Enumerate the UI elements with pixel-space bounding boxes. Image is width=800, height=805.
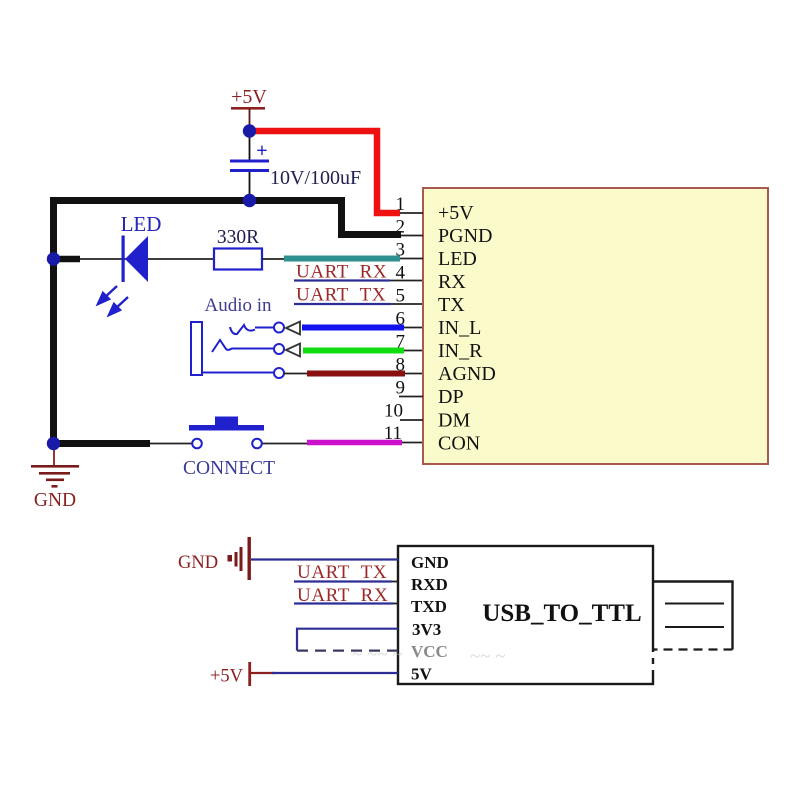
wire CON (magenta, pin 11) (307, 440, 402, 446)
svg-text:4: 4 (396, 263, 406, 284)
net label UART_RX with wire (to TXD) (294, 585, 398, 606)
junction node LED branch (47, 252, 60, 265)
svg-text:~~ ~: ~~ ~ (470, 646, 506, 667)
svg-text:DM: DM (438, 410, 470, 432)
svg-text:5V: 5V (411, 665, 433, 684)
wire left ground rail (50, 197, 57, 447)
svg-text:11: 11 (384, 423, 402, 444)
svg-text:UART TX: UART TX (297, 562, 387, 583)
svg-text:GND: GND (34, 490, 76, 511)
wire bottom thick black (rail to button) (50, 440, 150, 447)
pin 11 CON (384, 423, 481, 455)
resistor R1 330R (214, 249, 262, 270)
svg-text:RX: RX (438, 271, 466, 293)
svg-text:VCC: VCC (411, 642, 448, 661)
pin 7 IN_R (396, 332, 484, 363)
wire +5V red (to pin 1) (250, 131, 400, 213)
junction node cap / PGND wire (243, 194, 256, 207)
pin 5 TX (396, 286, 466, 317)
svg-text:TX: TX (438, 294, 465, 316)
svg-text:+5V: +5V (210, 667, 244, 687)
svg-text:10V/100uF: 10V/100uF (270, 167, 361, 189)
signal arrow IN_R (286, 344, 300, 357)
USB connector plug (653, 582, 733, 650)
audio jack J1 (191, 322, 284, 378)
wire PGND thick black (top) (50, 201, 401, 235)
watermark white breaks on module edge (651, 652, 656, 670)
svg-text:RXD: RXD (411, 575, 448, 594)
pin 2 PGND (396, 217, 493, 248)
svg-text:GND: GND (411, 553, 449, 572)
IC U1 audio module (yellow box) (423, 188, 768, 464)
svg-text:+5V: +5V (438, 202, 474, 224)
svg-text:3: 3 (396, 240, 406, 261)
net label UART_TX with wire (pin 5) (294, 285, 423, 306)
pin 10 DM stub (384, 401, 470, 432)
wire resistor to LED net (262, 258, 285, 260)
module U2 USB_TO_TTL (398, 546, 653, 684)
wire IN_R (green, pin 7) (303, 348, 404, 354)
pin 1 +5V (396, 194, 475, 224)
ground symbol GND (31, 447, 79, 511)
svg-text:~ ~~ ~: ~ ~~ ~ (352, 644, 403, 665)
svg-text:9: 9 (396, 378, 406, 399)
signal arrow IN_L (286, 322, 300, 335)
svg-text:PGND: PGND (438, 225, 492, 247)
svg-text:+5V: +5V (231, 86, 267, 108)
junction node ground (47, 437, 60, 450)
pin 4 RX (396, 263, 467, 294)
svg-text:AGND: AGND (438, 363, 496, 385)
power symbol +5V (top) (231, 86, 267, 126)
svg-text:IN_R: IN_R (438, 340, 483, 362)
svg-text:DP: DP (438, 386, 464, 408)
wire LED branch stub (54, 256, 81, 263)
LED D1 (98, 236, 148, 316)
svg-text:GND: GND (178, 553, 218, 573)
power ground symbol (bar style) (178, 537, 251, 580)
svg-text:IN_L: IN_L (438, 317, 481, 339)
svg-text:UART TX: UART TX (296, 285, 386, 306)
svg-text:TXD: TXD (411, 597, 447, 616)
svg-text:+: + (256, 140, 267, 162)
junction node at +5V / capacitor (243, 124, 256, 137)
svg-text:7: 7 (396, 332, 406, 353)
svg-text:Audio in: Audio in (204, 295, 272, 316)
svg-text:LED: LED (121, 212, 162, 236)
pin 8 AGND (396, 355, 496, 386)
power symbol +5V (bottom) (210, 662, 251, 687)
capacitor C1 10V/100uF (230, 131, 361, 200)
svg-text:8: 8 (396, 355, 406, 376)
svg-text:3V3: 3V3 (412, 620, 441, 639)
svg-text:USB_TO_TTL: USB_TO_TTL (482, 600, 641, 627)
pushbutton SW1 CONNECT (150, 417, 308, 449)
svg-text:5: 5 (396, 286, 406, 307)
pin 6 IN_L (396, 309, 482, 340)
net label UART_RX with wire (pin 4) (294, 262, 423, 283)
svg-text:UART RX: UART RX (296, 262, 387, 283)
wire LED net (teal, pin 3) (284, 256, 400, 262)
pin 3 LED (396, 240, 477, 271)
svg-text:10: 10 (384, 401, 403, 422)
wire 3V3 to VCC loop (297, 629, 398, 651)
wire +5V to 5V pin (251, 672, 275, 674)
svg-text:CONNECT: CONNECT (183, 458, 275, 479)
svg-text:LED: LED (438, 248, 477, 270)
net label UART_TX with wire (to RXD) (294, 562, 398, 583)
svg-text:6: 6 (396, 309, 406, 330)
watermark (faint) (352, 644, 506, 667)
wire GND to module (251, 558, 398, 560)
svg-text:330R: 330R (217, 227, 259, 248)
svg-text:CON: CON (438, 433, 480, 455)
wire IN_L (blue, pin 6) (302, 325, 404, 331)
pin 9 DP stub (396, 378, 464, 409)
wire AGND (dark red, pin 8) (284, 373, 310, 375)
svg-text:2: 2 (396, 217, 406, 238)
svg-text:1: 1 (396, 194, 406, 215)
